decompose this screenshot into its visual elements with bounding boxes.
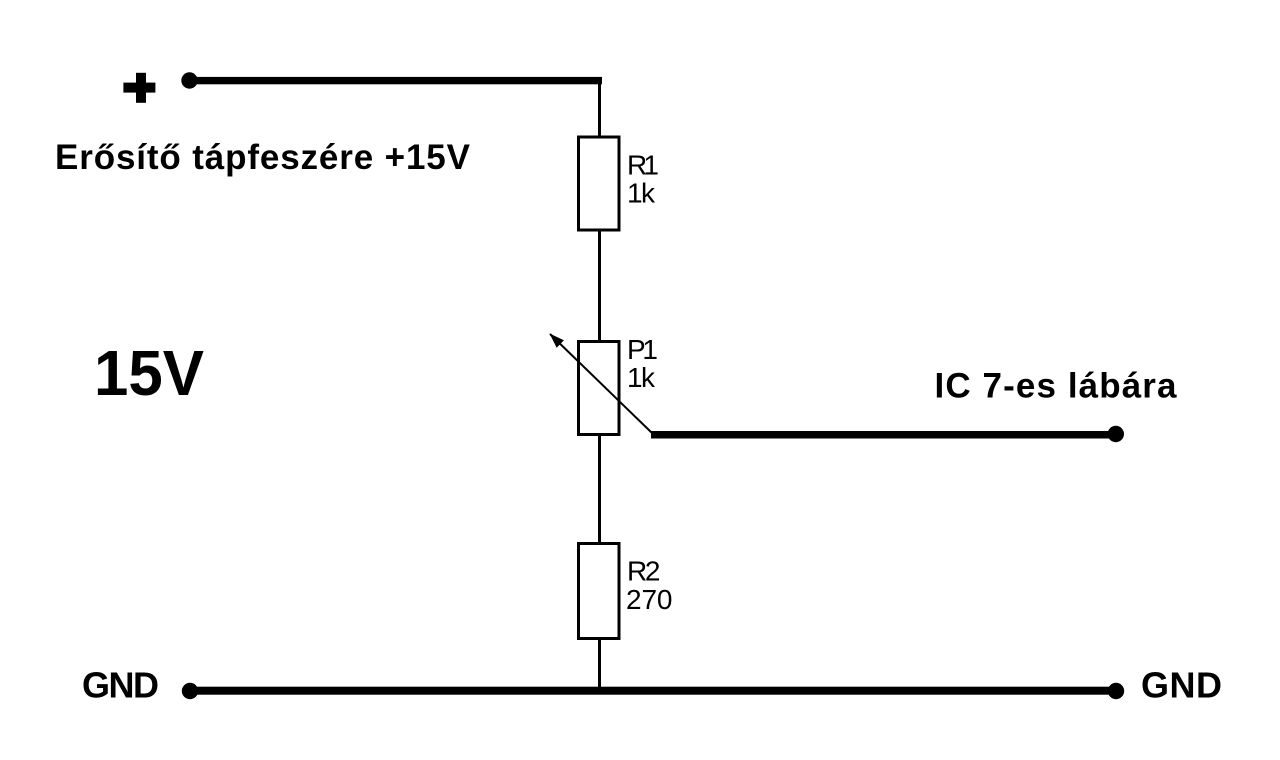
wire: R1 bottom to P1 top	[598, 230, 601, 341]
wire: P1 bottom to R2 top	[598, 434, 601, 543]
node dot (ground rail left end)	[182, 683, 198, 699]
svg-text:1k: 1k	[627, 177, 656, 208]
node dot (wiper wire right end)	[1108, 426, 1124, 442]
svg-text:IC 7-es lábára: IC 7-es lábára	[935, 366, 1178, 405]
node dot (ground rail right end)	[1108, 683, 1124, 699]
potentiometer P1 wiper arrowhead	[550, 334, 564, 348]
wire: rail down to R1 top	[598, 84, 601, 137]
svg-text:Erősítő tápfeszére +15V: Erősítő tápfeszére +15V	[55, 138, 471, 177]
potentiometer P1 wiper diagonal	[550, 334, 652, 433]
resistor R2	[579, 544, 620, 639]
resistor R1	[579, 137, 620, 230]
wire: ground rail (thick horizontal)	[194, 687, 1112, 695]
wire: wiper to IC pin 7 (thick horizontal)	[651, 431, 1110, 439]
svg-text:P1: P1	[627, 334, 658, 365]
svg-text:1k: 1k	[627, 362, 656, 393]
svg-text:GND: GND	[1141, 664, 1222, 705]
wire: +15V supply rail (thick horizontal)	[193, 77, 602, 84]
svg-text:GND: GND	[82, 664, 159, 705]
node dot (+15V wire left end)	[181, 72, 197, 88]
potentiometer P1 body	[579, 342, 620, 435]
svg-text:270: 270	[626, 584, 673, 615]
svg-text:R1: R1	[627, 150, 659, 181]
svg-text:R2: R2	[627, 555, 661, 586]
svg-text:15V: 15V	[94, 337, 204, 409]
wire: R2 bottom to ground rail	[598, 639, 601, 688]
plus symbol (+ supply terminal)	[123, 73, 155, 103]
